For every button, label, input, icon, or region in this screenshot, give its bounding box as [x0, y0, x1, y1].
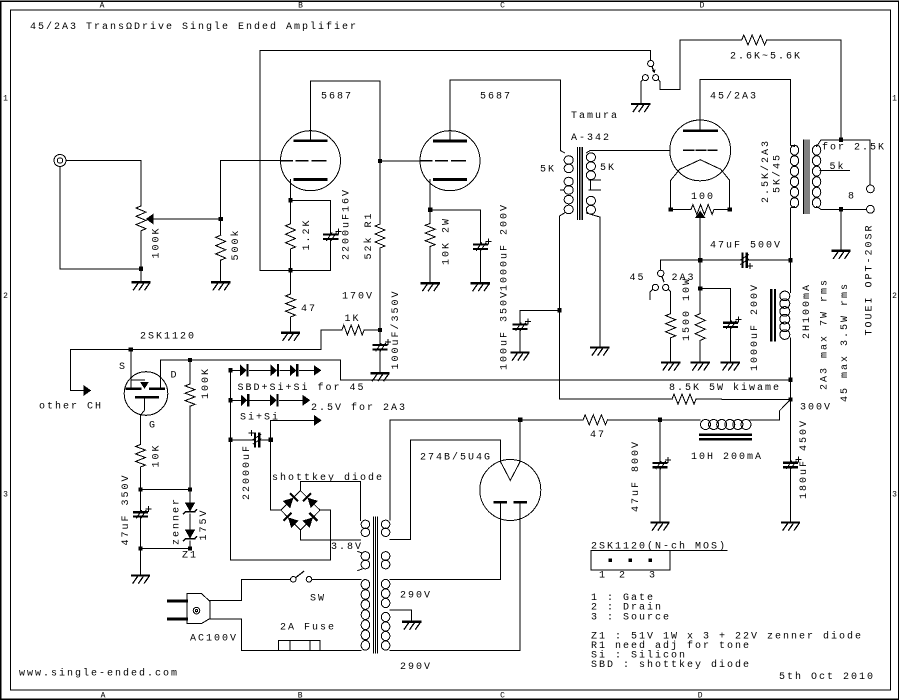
svg-text:100: 100 — [691, 192, 715, 203]
resistor 1K — [364, 329, 380, 331]
node filament feed — [788, 378, 792, 382]
svg-text:47: 47 — [590, 430, 606, 441]
T1 primary winding — [564, 156, 573, 214]
node 22000uF left — [228, 438, 232, 442]
T3 secondary 2.5K tap — [817, 140, 841, 146]
diode row for 45: wire — [231, 369, 241, 371]
ground 47uF800V — [652, 521, 669, 523]
svg-text:2.5V for 2A3: 2.5V for 2A3 — [311, 402, 407, 414]
T1 primary tap stub — [560, 189, 564, 191]
svg-text:A-342: A-342 — [571, 133, 611, 144]
svg-text:180uF 450V: 180uF 450V — [799, 419, 810, 499]
svg-text:2200uF16V: 2200uF16V — [342, 188, 353, 260]
svg-text:SBD+Si+Si for 45: SBD+Si+Si for 45 — [238, 382, 366, 394]
node pot bottom — [139, 267, 143, 271]
Q1 drain bar — [151, 387, 164, 390]
svg-text:AC100V: AC100V — [190, 633, 238, 644]
wire V2 plate to interstage primary — [450, 80, 561, 151]
V4 filament V — [500, 462, 520, 481]
choke L1 10H 200mA — [701, 420, 752, 430]
wire plug neutral to fuse — [210, 619, 278, 651]
svg-text:2: 2 — [619, 570, 627, 581]
node zener bottom left — [138, 546, 142, 550]
choke L2 leads — [790, 260, 792, 380]
node bus top — [228, 368, 232, 372]
wire wiper node up to 5687 grid — [221, 160, 281, 219]
V4 plate wires to HV winding — [500, 504, 520, 651]
bridge diode bottom-right — [303, 514, 316, 527]
resistor 47 B+ — [583, 415, 607, 425]
plug prongs — [169, 601, 187, 619]
bridge diode top-right — [304, 494, 317, 507]
svg-text:TOUEI OPT-20SR: TOUEI OPT-20SR — [865, 223, 876, 335]
bridge bottom to 3.8V winding — [301, 530, 361, 540]
T1 secondary winding top group — [586, 153, 595, 180]
ground bias cap — [722, 361, 739, 363]
svg-text:52k R1: 52k R1 — [363, 211, 375, 259]
T1 primary bottom lead — [560, 213, 565, 399]
V3 plate wire to OPT — [700, 79, 790, 145]
SW3 throw-45 stub dead end — [650, 289, 653, 299]
wire 290V bottom lead — [390, 650, 520, 652]
node cathode 45 — [698, 258, 702, 262]
feedback wire left riser — [260, 51, 650, 271]
V4 plate bars — [495, 501, 506, 504]
tube V4 274B/5U4G — [480, 460, 541, 521]
V3 filament legs — [671, 180, 730, 209]
wire cathode to bias switch — [661, 260, 701, 270]
svg-text:500k: 500k — [230, 228, 242, 260]
bridge diode bottom-left — [284, 514, 297, 527]
svg-text:S: S — [119, 362, 127, 373]
svg-text:1.2K: 1.2K — [302, 218, 313, 250]
svg-text:3: 3 — [649, 570, 657, 581]
diode bus vertical — [231, 370, 331, 560]
bridge diode top-left — [284, 494, 297, 507]
svg-text:1: 1 — [892, 95, 897, 104]
ground center tap — [403, 621, 420, 623]
wire cathode bottom / feedback join — [260, 269, 331, 271]
capacitor 47uF 500V ultrapath — [742, 254, 746, 267]
svg-text:B: B — [298, 2, 303, 11]
wire feedback to OPT tap — [767, 40, 841, 140]
svg-text:100K: 100K — [151, 226, 162, 258]
capacitor 47uF 350V — [140, 490, 142, 512]
capacitor 22000uF — [231, 439, 254, 441]
svg-text:47uF 500V: 47uF 500V — [710, 241, 782, 252]
node source line junction — [129, 347, 133, 351]
wire zener bottom — [141, 548, 191, 550]
diode D5 Si — [271, 395, 277, 405]
wire drain line corner — [339, 360, 341, 380]
wire wiper down to cathode node — [699, 218, 701, 260]
SW2 lever — [652, 66, 654, 72]
Q1 body arrow — [131, 379, 145, 381]
svg-text:5k: 5k — [830, 161, 846, 173]
svg-text:C: C — [500, 2, 505, 11]
node filament right — [728, 207, 732, 211]
svg-text:A: A — [100, 2, 105, 11]
wire choke to 300V node — [750, 400, 791, 420]
T1 primary top lead — [561, 151, 565, 153]
SW lever — [296, 571, 304, 577]
resistor R-FB 2.6K~5.6K — [742, 35, 767, 45]
node rectifier output — [518, 418, 522, 422]
node R1 bottom — [378, 328, 382, 332]
svg-text:100uF/350V: 100uF/350V — [390, 289, 402, 369]
svg-text:5687: 5687 — [321, 92, 353, 103]
tube V2 5687 second triode — [420, 131, 480, 191]
svg-text:10K: 10K — [151, 443, 162, 467]
node secondary ground — [839, 207, 843, 211]
svg-text:290V: 290V — [400, 590, 432, 601]
T3 primary winding — [790, 145, 798, 208]
svg-text:5687: 5687 — [480, 92, 512, 103]
SW3 throw 45 — [652, 284, 658, 290]
hum pot wiper arrow — [696, 211, 705, 218]
svg-text:100uF 350V: 100uF 350V — [500, 290, 511, 370]
choke L2 2H100mA winding — [780, 291, 790, 339]
svg-text:45/2A3: 45/2A3 — [710, 91, 758, 103]
diode D4 Si — [241, 395, 247, 405]
svg-text:G: G — [149, 421, 157, 432]
svg-text:3: 3 — [892, 491, 897, 500]
svg-text:5K: 5K — [540, 165, 556, 176]
Q1 drain wire to supply line — [161, 360, 341, 388]
svg-text:300V: 300V — [800, 403, 832, 414]
svg-text:47: 47 — [301, 304, 317, 315]
svg-text:45: 45 — [630, 273, 646, 284]
node feedback tap — [839, 138, 843, 142]
V4 filament right to B+ — [519, 420, 521, 462]
wire switch to primary — [312, 578, 361, 580]
wire jack to pot — [66, 161, 141, 206]
wire cathode to bypass cap — [291, 200, 331, 233]
ground OPT secondary — [833, 250, 850, 252]
transistor Q1 2SK1120 MOSFET — [124, 372, 168, 416]
wire cathode node down — [699, 260, 701, 288]
input jack J1 — [54, 155, 66, 167]
T2 winding 3.8V — [361, 520, 370, 536]
svg-text:2: 2 — [3, 292, 8, 301]
T3 secondary winding — [812, 145, 820, 208]
svg-text:shottkey diode: shottkey diode — [272, 472, 384, 484]
capacitor 180uF 450V — [790, 400, 792, 462]
ground V1 cathode — [282, 332, 299, 334]
row3 wire — [271, 420, 314, 440]
T2 290V center tap — [390, 610, 412, 621]
svg-text:100K: 100K — [201, 367, 212, 399]
plug AC100V — [187, 594, 210, 624]
switch bias SW3 common — [658, 270, 664, 276]
wire 290V top lead — [390, 578, 500, 580]
hum pot 100 — [671, 209, 691, 211]
V1 plate bar — [295, 140, 326, 143]
wire 45 filament feed line — [340, 379, 790, 381]
T2 secondary 290V winding — [381, 579, 390, 607]
resistor R1 52k — [375, 224, 385, 248]
svg-text:1000uF 200V: 1000uF 200V — [500, 203, 511, 291]
svg-text:D: D — [700, 2, 705, 11]
terminal output common — [867, 205, 875, 213]
resistor 8.5K 5W kiwame — [560, 398, 673, 400]
wire V2 cathode — [429, 180, 431, 210]
svg-text:for 2.5K: for 2.5K — [822, 142, 886, 154]
svg-text:C: C — [500, 692, 505, 700]
ground 500k — [212, 281, 229, 283]
T2 winding aux left stubs — [358, 552, 362, 571]
svg-text:47uF 350V: 47uF 350V — [121, 473, 132, 545]
node 100uF350V tap — [557, 308, 561, 312]
wire 300V node — [790, 380, 792, 400]
node OPT primary bottom — [788, 258, 792, 262]
svg-text:B: B — [298, 692, 303, 700]
svg-text:1K: 1K — [345, 314, 361, 325]
bridge left stub — [271, 509, 281, 511]
svg-text:Z1: Z1 — [182, 551, 198, 562]
svg-text:10H 200mA: 10H 200mA — [691, 452, 763, 463]
svg-text:8.5K 5W kiwame: 8.5K 5W kiwame — [669, 382, 781, 394]
arrow feed 45 — [314, 366, 321, 375]
choke L1 core bars — [700, 435, 751, 440]
pinout underline — [591, 550, 727, 552]
ground 180uF — [782, 521, 799, 523]
svg-text:47uF 800V: 47uF 800V — [631, 440, 642, 512]
svg-text:274B/5U4G: 274B/5U4G — [420, 452, 492, 464]
node cathode bottom — [288, 268, 292, 272]
svg-text:SW: SW — [310, 594, 326, 605]
node gate bias right — [188, 487, 192, 491]
node V2 cathode — [428, 208, 432, 212]
node 100K top — [188, 358, 192, 362]
node 300V — [788, 397, 792, 401]
wire secondary to ground — [840, 209, 842, 250]
ground 100uF/350V — [372, 372, 389, 374]
switch feedback SW2 common — [648, 61, 654, 67]
V2 cathode bar — [435, 178, 466, 181]
T3 primary top lead — [791, 145, 795, 146]
svg-text:1000uF 200V: 1000uF 200V — [750, 283, 761, 371]
pinout package box — [591, 551, 670, 570]
resistor 1500 10W fixed — [699, 289, 701, 314]
resistor 1.2K cathode — [290, 200, 292, 223]
node 47uF800V — [658, 418, 662, 422]
T2 primary AC100V winding — [361, 580, 370, 650]
terminal output hot — [867, 185, 875, 193]
resistor 100K gate bleed — [189, 360, 191, 384]
Q1 source bar — [127, 387, 140, 390]
svg-text:1500 10W: 1500 10W — [682, 277, 693, 341]
bridge top to 3.8V winding — [301, 482, 361, 521]
potentiometer 100K — [136, 206, 146, 231]
arrow feed 2A3 — [303, 396, 310, 405]
node gate bias left — [138, 487, 142, 491]
node wiper junction — [219, 217, 223, 221]
node V1 cathode — [288, 198, 292, 202]
ground 1500 fixed — [692, 361, 709, 363]
svg-text:other CH: other CH — [39, 401, 103, 413]
node cathode resistor top — [698, 286, 702, 290]
svg-text:2A Fuse: 2A Fuse — [280, 622, 336, 633]
T3 5k tap — [820, 169, 850, 171]
Q1 channel bar — [137, 396, 158, 399]
transformer T1 Tamura A-342 core — [578, 148, 583, 220]
T1 secondary winding bottom group — [586, 196, 595, 214]
wire cathode to 1000uF cap — [430, 210, 480, 244]
bridge + bus — [270, 440, 272, 510]
svg-text:3 : Source: 3 : Source — [591, 612, 671, 623]
svg-text:290V: 290V — [400, 662, 432, 673]
svg-text:8: 8 — [848, 192, 856, 203]
node zener bottom right — [188, 546, 192, 550]
wire 5V winding to B+ line — [389, 420, 391, 520]
svg-text:5th Oct 2010: 5th Oct 2010 — [779, 671, 875, 683]
svg-text:1: 1 — [599, 570, 607, 581]
V3 plate bar — [685, 129, 717, 132]
V2 grid dashes — [421, 160, 466, 162]
T1 secondary top lead — [586, 151, 670, 153]
T3 primary bottom lead — [791, 207, 795, 261]
ground 10K2W — [422, 282, 439, 284]
capacitor 1000uF 200V bias — [724, 323, 737, 327]
tube V1 5687 first triode — [281, 131, 341, 191]
svg-text:www.single-ended.com: www.single-ended.com — [19, 668, 179, 680]
wire pot wiper to 500k junction — [153, 218, 221, 220]
wire to ground — [140, 549, 142, 575]
wire V1 plate to R1/V2 grid node — [311, 81, 381, 224]
diode D3 Si — [290, 365, 296, 375]
other CH arrow — [71, 350, 131, 391]
resistor 47 cathode to ground — [290, 270, 292, 294]
T1 secondary bottom lead to ground — [586, 213, 599, 347]
wire plug hot to switch — [210, 579, 291, 600]
svg-text:2H100mA: 2H100mA — [802, 283, 813, 339]
ground T1 secondary — [591, 346, 608, 348]
T2 winding 5V — [381, 520, 390, 536]
ground cap V2 — [472, 282, 489, 284]
svg-text:2A3 max 7W rms: 2A3 max 7W rms — [820, 278, 831, 390]
SW3 lever — [662, 276, 664, 281]
wire bias nodes — [141, 489, 191, 491]
fuse 2A — [278, 640, 320, 650]
wire 1K to MOSFET source line — [131, 330, 321, 350]
svg-text:Tamura: Tamura — [571, 111, 619, 122]
node row2 left — [228, 398, 232, 402]
svg-text:2.5K/2A3: 2.5K/2A3 — [760, 139, 772, 203]
wire throw right to feedback resistor — [658, 40, 742, 90]
wire pot bottom to ground net — [60, 167, 141, 269]
ground input — [133, 281, 150, 283]
resistor 10K gate — [136, 445, 146, 468]
Q1 source wire — [130, 350, 132, 388]
T3 secondary bottom tap — [817, 207, 867, 210]
svg-text:5K/45: 5K/45 — [772, 153, 784, 193]
svg-text:5K: 5K — [600, 163, 616, 174]
svg-text:175V: 175V — [199, 508, 210, 540]
ground 100uF350V — [512, 351, 529, 353]
svg-text:D: D — [698, 692, 703, 700]
B+ line left part — [390, 419, 583, 421]
capacitor 1000uF 200V cathode — [474, 245, 487, 249]
T2 winding aux left — [361, 552, 370, 569]
diode D1 SBD — [241, 365, 247, 375]
V1 cathode bar — [295, 178, 326, 181]
transformer T3 OPT core — [803, 140, 808, 214]
wire 47 to choke — [608, 419, 700, 421]
V3 grid dashes — [684, 149, 717, 151]
arrow row3 — [315, 416, 322, 425]
wire node to V2 grid — [380, 160, 420, 162]
node V1 plate / V2 grid — [378, 159, 382, 163]
svg-text:2: 2 — [892, 292, 897, 301]
svg-text:3: 3 — [3, 491, 8, 500]
tube V3 45/2A3 — [670, 120, 731, 181]
wire tap to output terminal — [841, 140, 870, 185]
svg-text:10K 2W: 10K 2W — [442, 217, 453, 265]
T1 secondary taps — [589, 180, 600, 190]
diode row for 2A3: wire — [231, 399, 242, 401]
ground feedback off — [632, 103, 649, 105]
svg-text:22000uF: 22000uF — [242, 444, 253, 500]
SW2 throw right — [653, 75, 659, 81]
svg-text:170V: 170V — [342, 292, 374, 303]
transformer T2 power core — [373, 517, 377, 653]
SW2 throw left — [642, 75, 648, 81]
svg-text:D: D — [171, 371, 179, 382]
resistor 10K 2W cathode — [429, 210, 431, 224]
ground gate bias — [132, 574, 149, 576]
SW3 throw-2A3 to resistor — [668, 289, 670, 313]
switch SW mains — [291, 577, 297, 583]
wire V1 cathode down — [290, 180, 292, 201]
svg-text:zenner: zenner — [172, 497, 183, 545]
diode D2 Si — [271, 365, 277, 375]
V3 filament — [680, 160, 721, 170]
choke L2 2H100mA core — [771, 290, 775, 340]
bridge right stub — [320, 509, 331, 511]
svg-text:45 max 3.5W rms: 45 max 3.5W rms — [840, 282, 851, 402]
capacitor 100uF/350V — [379, 330, 381, 344]
resistor 500k — [220, 219, 222, 235]
wire to ground — [140, 269, 142, 282]
V2 plate bar — [435, 140, 466, 143]
wire to bypass cap — [700, 289, 730, 322]
svg-text:1: 1 — [3, 95, 8, 104]
svg-text:2SK1120: 2SK1120 — [140, 332, 196, 343]
svg-text:45/2A3 TransΩDrive Single Ende: 45/2A3 TransΩDrive Single Ended Amplifie… — [30, 21, 358, 33]
zener Z1 stack — [189, 490, 191, 503]
capacitor 47uF 800V — [659, 420, 661, 462]
capacitor 100uF 350V — [520, 310, 560, 323]
svg-text:Si+Si: Si+Si — [240, 412, 280, 424]
Q1 gate wire — [141, 399, 145, 445]
bridge rectifier shottkey diamond — [281, 491, 320, 530]
V1 grid dashes — [281, 160, 326, 162]
svg-text:2.6K~5.6K: 2.6K~5.6K — [730, 52, 802, 63]
ultrapath wire — [700, 259, 741, 261]
svg-text:A: A — [101, 692, 106, 700]
V4 filament loop to 5V winding — [390, 440, 500, 540]
node filament left — [668, 207, 672, 211]
wire throw left to ground — [641, 80, 643, 103]
node 22000uF right — [268, 438, 272, 442]
SW3 throw 2A3 — [663, 284, 669, 290]
T2 winding aux right — [381, 552, 390, 569]
ground 1500 switched — [662, 361, 679, 363]
capacitor 2200uF16V — [324, 235, 337, 239]
wire fuse to primary — [320, 650, 361, 652]
resistor 1500 10W switched — [666, 314, 676, 338]
